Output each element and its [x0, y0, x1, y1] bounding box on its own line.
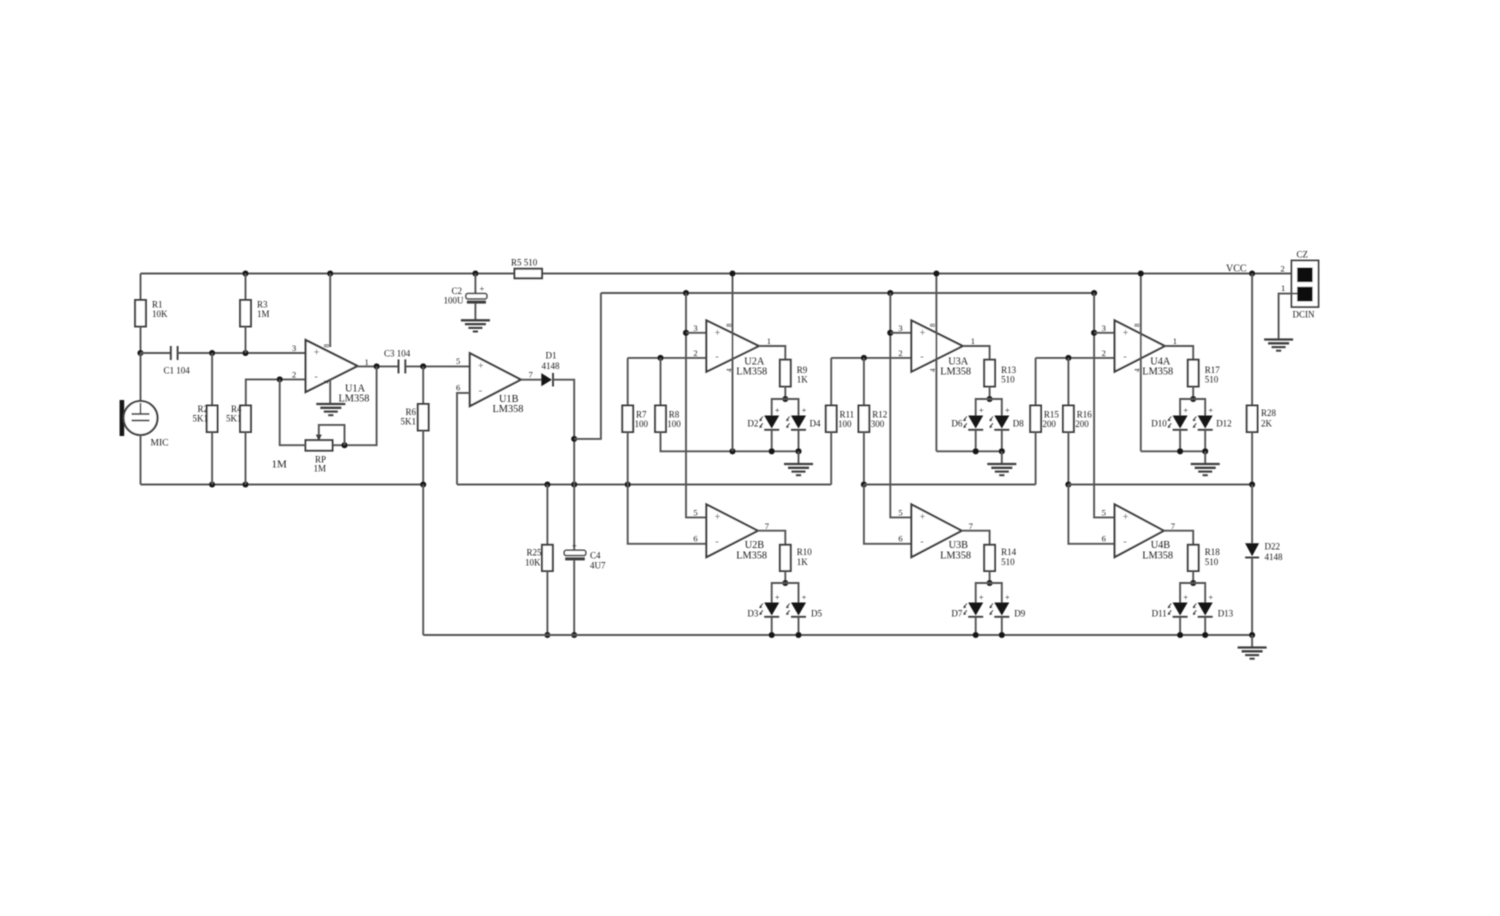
- svg-text:D9: D9: [1014, 609, 1025, 619]
- svg-text:R9: R9: [797, 365, 808, 375]
- node bus tap stage 2: [683, 290, 689, 296]
- wire C1 node to MIC: [140, 353, 142, 401]
- svg-text:+: +: [1183, 593, 1188, 602]
- svg-text:R1: R1: [152, 300, 163, 310]
- node U2A pin4 on ground line: [729, 448, 735, 454]
- svg-text:5K1: 5K1: [226, 414, 242, 424]
- resistor R6: [418, 404, 429, 431]
- wire R25 bottom lead: [546, 571, 548, 635]
- wire R16 top lead: [1067, 358, 1069, 406]
- svg-text:R8: R8: [669, 410, 680, 420]
- svg-text:U3B: U3B: [949, 540, 969, 551]
- svg-text:-: -: [715, 536, 719, 548]
- LED D5: [791, 603, 806, 616]
- svg-text:3: 3: [1102, 323, 1106, 333]
- svg-text:R5 510: R5 510: [511, 258, 538, 268]
- wire R7 top lead: [627, 358, 629, 406]
- node D10 on ground line: [1177, 448, 1183, 454]
- svg-text:D2: D2: [747, 419, 758, 429]
- wire bus tap down to U2A pin3 and U2B pin5: [686, 293, 706, 517]
- svg-text:1K: 1K: [797, 557, 809, 567]
- wire ground rail segment A: [141, 484, 424, 486]
- svg-text:5: 5: [693, 508, 697, 518]
- svg-text:R6: R6: [405, 407, 416, 417]
- wire R18 to LED pair: [1192, 571, 1194, 583]
- svg-text:200: 200: [1075, 419, 1089, 429]
- svg-text:MIC: MIC: [151, 439, 169, 449]
- wire LED pair header stage 4: [1180, 399, 1205, 416]
- wire U4A pin3 stub: [1094, 332, 1115, 334]
- wire D11 cathode to rail 2: [1179, 617, 1181, 635]
- wire U4A ground line: [1141, 450, 1205, 452]
- node lower LED pair junction stage 4: [1190, 580, 1196, 586]
- node bus tap stage 4: [1091, 290, 1097, 296]
- op-amp U2A: [706, 320, 758, 371]
- svg-text:R2: R2: [197, 404, 208, 414]
- wire U1A pin2 net: [246, 379, 306, 405]
- wire R6 down to ground rail 2: [422, 485, 424, 636]
- wire feedback output drop: [333, 366, 377, 445]
- wire D3 cathode to rail 2: [771, 617, 773, 635]
- wire D6 cathode lead: [975, 430, 977, 452]
- svg-text:D12: D12: [1216, 419, 1232, 429]
- wire R10 to LED pair: [784, 571, 786, 583]
- svg-text:+: +: [775, 593, 780, 602]
- LED D12: [1198, 416, 1213, 429]
- potentiometer RP: [306, 440, 333, 451]
- wire D8 cathode lead: [1001, 430, 1003, 452]
- svg-text:510: 510: [1001, 375, 1015, 385]
- wire U2A pin2 net: [628, 357, 707, 359]
- wire D9 cathode to rail 2: [1001, 617, 1003, 635]
- svg-text:6: 6: [898, 534, 902, 544]
- svg-text:7: 7: [1171, 521, 1175, 531]
- wire D12 cathode lead: [1204, 430, 1206, 452]
- svg-text:6: 6: [1102, 534, 1106, 544]
- svg-text:5: 5: [1102, 508, 1106, 518]
- svg-text:+: +: [920, 328, 926, 339]
- svg-text:C2: C2: [451, 286, 462, 296]
- potentiometer RP wiper arrow: [316, 435, 322, 441]
- svg-text:D22: D22: [1265, 542, 1281, 552]
- wire comparator signal bus: [601, 292, 1094, 294]
- LED D7: [968, 603, 983, 616]
- wire U1B output to D1: [521, 379, 542, 381]
- node RP right junction: [341, 442, 347, 448]
- wire D22 cathode to rail 2: [1251, 558, 1253, 636]
- svg-text:R17: R17: [1205, 365, 1221, 375]
- svg-text:R11: R11: [840, 410, 855, 420]
- svg-text:+: +: [802, 406, 807, 415]
- wire detector to comparator bus riser: [574, 293, 601, 439]
- svg-text:C1 104: C1 104: [164, 366, 191, 376]
- wire bus tap down to U4A pin3 and U4B pin5: [1094, 293, 1115, 517]
- svg-text:+: +: [715, 512, 721, 523]
- wire U1A pin 4 to ground: [329, 379, 331, 405]
- svg-text:300: 300: [871, 419, 885, 429]
- svg-text:R4: R4: [231, 404, 242, 414]
- LED D11: [1173, 603, 1188, 616]
- node D3 on rail 2: [769, 632, 775, 638]
- node R12 top junction: [861, 355, 867, 361]
- wire C4 lower lead: [573, 485, 575, 551]
- node R3 top on VCC rail: [242, 270, 248, 276]
- resistor R10: [780, 545, 791, 571]
- svg-text:2K: 2K: [1261, 419, 1273, 429]
- svg-text:D13: D13: [1218, 609, 1234, 619]
- wire bus tap down to U3A pin3 and U3B pin5: [890, 293, 911, 517]
- svg-text:+: +: [1005, 593, 1010, 602]
- svg-text:R7: R7: [636, 410, 647, 420]
- wire U3A ground line: [936, 450, 1001, 452]
- node R7 bottom on rail B: [625, 481, 631, 487]
- node R12 junction on rail: [861, 481, 867, 487]
- wire R3 from VCC rail: [245, 274, 247, 301]
- node C1 left junction: [137, 350, 143, 356]
- wire R28 top lead: [1251, 274, 1253, 406]
- svg-text:5: 5: [456, 356, 460, 366]
- resistor R17: [1188, 360, 1199, 387]
- wire R3 to pin3 net: [245, 326, 247, 353]
- svg-text:6: 6: [456, 383, 460, 393]
- wire R16 bottom to rail junction: [1067, 432, 1069, 485]
- LED D8: [994, 416, 1009, 429]
- wire U2B pin6 drop: [628, 485, 707, 544]
- svg-text:R3: R3: [257, 300, 268, 310]
- resistor R25: [542, 545, 553, 571]
- svg-text:R16: R16: [1077, 410, 1093, 420]
- node R28 tap on VCC rail: [1249, 270, 1255, 276]
- wire CZ pin1 to ground: [1279, 294, 1298, 340]
- node R16 top junction: [1065, 355, 1071, 361]
- node R4 bottom on rail A: [242, 481, 248, 487]
- wire R2 bottom lead: [211, 432, 213, 485]
- wire U3B pin6 drop: [864, 485, 912, 544]
- svg-text:LM358: LM358: [736, 367, 767, 378]
- svg-text:+: +: [715, 328, 721, 339]
- svg-text:U2B: U2B: [745, 540, 765, 551]
- ground below U1A: [316, 403, 345, 405]
- svg-text:LM358: LM358: [940, 367, 971, 378]
- wire U4B output to R18: [1164, 531, 1194, 545]
- node D6 on ground line: [973, 448, 979, 454]
- capacitor C2: [466, 294, 487, 299]
- svg-text:200: 200: [1042, 419, 1056, 429]
- wire R8 bottom to ground line: [661, 432, 799, 452]
- node LED pair top junction stage 2: [782, 396, 788, 402]
- node C4 bottom on rail 2: [571, 632, 577, 638]
- wire U4A pin2 net: [1036, 357, 1115, 359]
- node C2 tap on VCC rail: [472, 270, 478, 276]
- resistor R8: [655, 406, 666, 433]
- wire U3A output to R13: [963, 346, 990, 360]
- svg-text:1M: 1M: [314, 464, 327, 474]
- node D8 on ground line: [999, 448, 1005, 454]
- diode D22: [1245, 543, 1259, 556]
- resistor R3: [240, 300, 251, 327]
- svg-text:1: 1: [767, 336, 771, 346]
- node U3A power tap: [933, 270, 939, 276]
- wire VCC rail left segment: [141, 273, 515, 275]
- capacitor C1: [170, 346, 172, 360]
- node R2 bottom on rail A: [209, 481, 215, 487]
- svg-text:+: +: [478, 361, 484, 372]
- svg-text:3: 3: [693, 323, 697, 333]
- svg-text:-: -: [715, 351, 719, 363]
- svg-text:7: 7: [529, 370, 533, 380]
- svg-text:R14: R14: [1001, 547, 1017, 557]
- svg-text:2: 2: [693, 348, 697, 358]
- svg-text:2: 2: [1102, 348, 1106, 358]
- wire D4 cathode lead: [798, 430, 800, 452]
- svg-text:8: 8: [323, 344, 331, 348]
- svg-text:U4B: U4B: [1151, 540, 1171, 551]
- LED D2: [764, 416, 779, 429]
- svg-text:+: +: [1123, 328, 1129, 339]
- ground below CZ: [1264, 338, 1293, 340]
- wire R13 to LED pair: [989, 387, 991, 400]
- svg-text:-: -: [1123, 351, 1127, 363]
- wire ground rail 2: [423, 634, 1252, 636]
- svg-text:100: 100: [667, 419, 681, 429]
- svg-text:10K: 10K: [525, 558, 541, 568]
- svg-text:2: 2: [1281, 264, 1285, 274]
- LED D4: [791, 416, 806, 429]
- svg-text:R10: R10: [797, 547, 813, 557]
- node U2A power tap: [729, 270, 735, 276]
- svg-text:+: +: [802, 593, 807, 602]
- op-amp U4B: [1115, 504, 1164, 557]
- svg-text:CZ: CZ: [1297, 250, 1309, 260]
- svg-text:2: 2: [292, 370, 296, 380]
- svg-text:-: -: [478, 384, 482, 396]
- wire MIC to bottom rail: [140, 435, 142, 485]
- node R6 top junction: [420, 363, 426, 369]
- wire R1 to C1 node: [140, 326, 142, 353]
- node RP feedback tap on pin2 net: [277, 376, 283, 382]
- svg-text:R13: R13: [1001, 365, 1017, 375]
- wire U1A power pin 8 from rail: [329, 274, 331, 348]
- wire RP wiper loop: [319, 425, 345, 445]
- wire U3A pin3 stub: [890, 332, 911, 334]
- svg-text:+: +: [1209, 406, 1214, 415]
- node U2A pin3 junction: [683, 330, 689, 336]
- resistor R14: [984, 545, 995, 571]
- svg-text:+: +: [572, 541, 577, 551]
- wire U1B pin6 feedback: [457, 393, 470, 485]
- op-amp U3B: [911, 504, 961, 557]
- svg-text:LM358: LM358: [1142, 551, 1173, 562]
- svg-text:5K1: 5K1: [193, 414, 209, 424]
- node C4 top on rail B: [571, 481, 577, 487]
- wire R15 top lead: [1035, 358, 1037, 406]
- wire D7 cathode to rail 2: [975, 617, 977, 635]
- wire R12 top lead: [863, 358, 865, 406]
- svg-text:-: -: [920, 351, 924, 363]
- svg-text:C4: C4: [590, 551, 601, 561]
- svg-text:+: +: [775, 406, 780, 415]
- wire detector rail segment C: [864, 484, 1036, 486]
- svg-text:+: +: [1005, 406, 1010, 415]
- node U1A output junction: [374, 363, 380, 369]
- svg-text:D3: D3: [747, 609, 758, 619]
- wire R28 bottom to rail junction: [1251, 432, 1253, 485]
- node lower LED pair junction stage 2: [782, 580, 788, 586]
- svg-text:D10: D10: [1151, 419, 1167, 429]
- svg-text:+: +: [1183, 406, 1188, 415]
- resistor R18: [1188, 545, 1199, 571]
- resistor R28: [1247, 406, 1258, 433]
- svg-text:R28: R28: [1261, 408, 1277, 418]
- wire R8 top lead: [660, 358, 662, 406]
- resistor R16: [1063, 406, 1074, 433]
- wire C1 left lead: [141, 352, 171, 354]
- svg-text:R25: R25: [526, 548, 542, 558]
- wire lower LED pair header stage 2: [772, 583, 799, 603]
- svg-text:100U: 100U: [444, 296, 465, 306]
- node R8 top junction: [657, 355, 663, 361]
- node D4 on ground line: [795, 448, 801, 454]
- svg-text:2: 2: [898, 348, 902, 358]
- svg-text:+: +: [920, 512, 926, 523]
- node D13 on rail 2: [1202, 632, 1208, 638]
- svg-text:D8: D8: [1013, 419, 1024, 429]
- wire R6 bottom lead: [422, 431, 424, 485]
- resistor R2: [207, 406, 218, 433]
- ground below D8: [987, 463, 1016, 465]
- wire U2A output to R9: [759, 346, 786, 360]
- wire RP left lead to pin2: [280, 379, 306, 445]
- node bus tap stage 3: [887, 290, 893, 296]
- node lower LED pair junction stage 3: [987, 580, 993, 586]
- wire D10 cathode lead: [1179, 430, 1181, 452]
- wire lower LED pair header stage 4: [1180, 583, 1205, 603]
- svg-text:100: 100: [838, 419, 852, 429]
- capacitor C4: [564, 550, 586, 555]
- LED D10: [1173, 416, 1188, 429]
- svg-text:R12: R12: [872, 410, 887, 420]
- node D12 on ground line: [1202, 448, 1208, 454]
- wire R2 top lead: [211, 353, 213, 406]
- node D22 bottom on rail 2: [1249, 632, 1255, 638]
- diode D1: [541, 373, 552, 386]
- svg-text:D11: D11: [1152, 609, 1167, 619]
- wire LED pair header stage 3: [976, 399, 1002, 416]
- svg-text:4U7: 4U7: [590, 561, 606, 571]
- node R25 top on rail B: [544, 481, 550, 487]
- svg-text:LM358: LM358: [940, 551, 971, 562]
- LED D13: [1198, 603, 1213, 616]
- svg-text:510: 510: [1001, 557, 1015, 567]
- wire R25 top lead: [546, 485, 548, 545]
- svg-text:6: 6: [693, 534, 697, 544]
- wire R7 bottom lead: [627, 432, 629, 485]
- resistor R7: [622, 406, 633, 433]
- svg-text:+: +: [1123, 512, 1129, 523]
- svg-text:VCC: VCC: [1226, 264, 1247, 275]
- svg-text:1: 1: [1281, 283, 1285, 293]
- svg-text:4148: 4148: [542, 361, 561, 371]
- op-amp U4A: [1115, 320, 1165, 371]
- wire C1 right lead to pin3 net: [178, 352, 306, 354]
- wire R17 to LED pair: [1192, 387, 1194, 400]
- capacitor C3: [398, 359, 400, 373]
- wire C2 to ground: [474, 304, 476, 321]
- svg-text:LM358: LM358: [1142, 367, 1173, 378]
- node R25 bottom on rail 2: [544, 632, 550, 638]
- resistor R4: [240, 406, 251, 433]
- op-amp U1A: [306, 340, 358, 392]
- ground at rail 2 end: [1238, 646, 1267, 648]
- svg-text:1M: 1M: [257, 309, 270, 319]
- svg-text:100: 100: [635, 419, 649, 429]
- LED D9: [994, 603, 1009, 616]
- svg-text:-: -: [920, 536, 924, 548]
- wire ground stub stage 2: [798, 451, 800, 464]
- wire R15 bottom to rail segment end: [1035, 432, 1037, 485]
- node U4A pin3 junction: [1091, 330, 1097, 336]
- wire U4A power pins 8-4: [1140, 274, 1142, 452]
- resistor R13: [984, 360, 995, 387]
- svg-text:D7: D7: [951, 609, 962, 619]
- node U1A power tap on VCC rail: [327, 270, 333, 276]
- svg-text:DCIN: DCIN: [1293, 310, 1315, 320]
- wire U4A output to R17: [1165, 346, 1193, 360]
- wire ground stub stage 3: [1001, 451, 1003, 464]
- op-amp U1B: [470, 353, 521, 406]
- node D11 on rail 2: [1177, 632, 1183, 638]
- svg-text:4148: 4148: [1265, 552, 1284, 562]
- svg-text:D1: D1: [546, 351, 557, 361]
- svg-text:+: +: [480, 284, 485, 294]
- node D5 on rail 2: [795, 632, 801, 638]
- node U3A pin3 junction: [887, 330, 893, 336]
- resistor R11: [826, 406, 837, 433]
- resistor R1: [135, 300, 146, 327]
- wire R4 bottom lead: [245, 432, 247, 485]
- wire R9 to LED pair: [784, 387, 786, 400]
- svg-text:7: 7: [765, 521, 769, 531]
- wire U3A power pins 8-4: [935, 274, 937, 452]
- node R3 bottom junction: [242, 350, 248, 356]
- wire R6 top lead: [422, 366, 424, 404]
- svg-text:D5: D5: [811, 609, 822, 619]
- microphone MIC: [120, 400, 125, 436]
- wire C4 to ground rail 2: [573, 560, 575, 635]
- svg-text:5: 5: [898, 508, 902, 518]
- connector CZ: [1292, 261, 1319, 308]
- op-amp U2B: [706, 504, 757, 557]
- svg-text:5K1: 5K1: [401, 417, 417, 427]
- svg-text:1: 1: [971, 336, 975, 346]
- wire ground stub stage 4: [1204, 451, 1206, 464]
- svg-text:10K: 10K: [152, 309, 168, 319]
- node R16 junction on rail: [1065, 481, 1071, 487]
- node D9 on rail 2: [999, 632, 1005, 638]
- ground below D12: [1191, 463, 1220, 465]
- wire lower LED pair header stage 3: [976, 583, 1002, 603]
- op-amp U3A: [911, 320, 962, 371]
- svg-text:D6: D6: [951, 419, 962, 429]
- ground below C2: [461, 319, 490, 321]
- wire U2A power pins 8-4: [732, 274, 734, 452]
- resistor R9: [780, 360, 791, 387]
- node R2 top junction: [209, 350, 215, 356]
- wire D2 cathode lead: [771, 430, 773, 452]
- wire U4B pin6 drop: [1068, 485, 1114, 544]
- svg-text:+: +: [1209, 593, 1214, 602]
- wire D13 cathode to rail 2: [1204, 617, 1206, 635]
